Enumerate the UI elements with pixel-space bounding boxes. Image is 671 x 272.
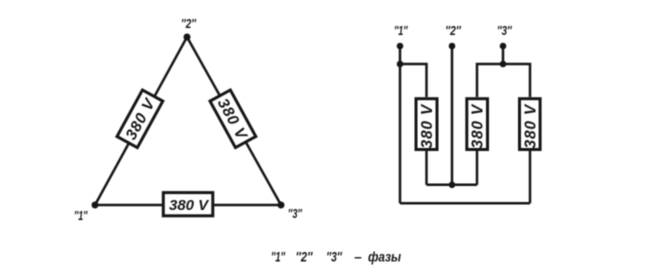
svg-text:″1″: ″1″ <box>271 250 285 265</box>
svg-text:″2″: ″2″ <box>181 16 197 31</box>
svg-text:380 V: 380 V <box>523 103 540 148</box>
svg-text:″2″: ″2″ <box>445 23 461 38</box>
svg-text:″2″: ″2″ <box>296 250 313 265</box>
svg-text:″3″: ″3″ <box>497 23 512 38</box>
svg-text:фазы: фазы <box>368 250 401 265</box>
svg-text:380 V: 380 V <box>470 103 487 148</box>
svg-text:380 V: 380 V <box>419 103 436 148</box>
svg-text:380 V: 380 V <box>169 197 210 214</box>
svg-text:″1″: ″1″ <box>394 23 408 38</box>
svg-text:″3″: ″3″ <box>326 250 342 265</box>
svg-text:–: – <box>354 250 362 265</box>
svg-text:″3″: ″3″ <box>288 206 302 221</box>
svg-text:″1″: ″1″ <box>74 208 88 223</box>
